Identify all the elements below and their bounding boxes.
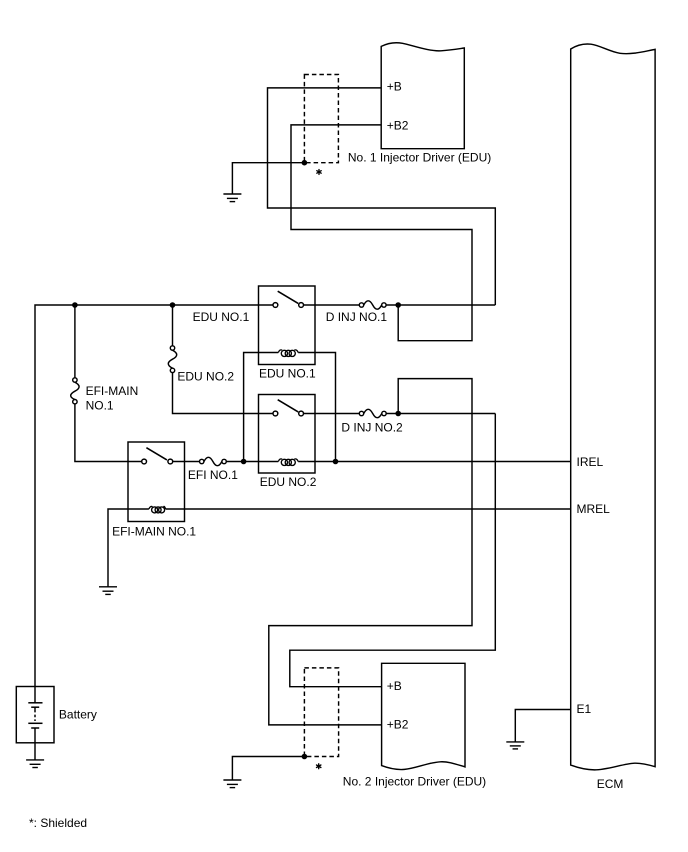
ECM box — [571, 44, 655, 770]
svg-text:EDU NO.2: EDU NO.2 — [260, 475, 317, 489]
relay EDU NO.2 switch blade — [278, 400, 299, 412]
svg-text:ECM: ECM — [597, 777, 624, 791]
wire fuse D INJ NO.2 output — [384, 413, 495, 415]
wire IREL line from EFI NO.1 fuse to ECM — [224, 461, 278, 463]
relay EDU NO.1 box — [259, 286, 316, 365]
wire EFI-MAIN NO.1 fuse branch upper — [74, 305, 76, 380]
ground (bottom shield) — [223, 780, 241, 788]
fuse D INJ NO.1 element — [364, 301, 382, 309]
wire +B2 feed of No.2 EDU — [269, 379, 472, 725]
shield (dashed) around No.1 EDU feed — [304, 75, 338, 163]
wire EDU NO.2 fuse branch lower to relay — [173, 370, 276, 413]
no.1 injector driver (EDU) box — [381, 43, 464, 149]
ground (EFI-MAIN relay coil) — [99, 587, 117, 595]
wire relay EDU NO.2 output to fuse D INJ NO.2 — [301, 413, 361, 415]
wire EFI-MAIN NO.1 fuse branch lower to relay — [75, 402, 144, 462]
ground (battery) — [26, 760, 44, 768]
svg-text:EFI NO.1: EFI NO.1 — [188, 468, 238, 482]
svg-text:D INJ NO.1: D INJ NO.1 — [326, 310, 388, 324]
svg-text:EFI-MAIN NO.1: EFI-MAIN NO.1 — [112, 525, 196, 539]
wire relay EDU NO.1 output to fuse D INJ NO.1 — [301, 304, 361, 306]
wire EDU NO.1 relay coil loop — [244, 353, 279, 462]
svg-text:+B2: +B2 — [387, 718, 409, 732]
svg-text:E1: E1 — [577, 702, 592, 716]
svg-text:EDU NO.1: EDU NO.1 — [259, 367, 316, 381]
wire MREL line from EFI-MAIN relay coil to ECM — [108, 509, 149, 587]
ground (E1) — [506, 742, 524, 749]
svg-text:+B: +B — [387, 679, 402, 693]
svg-text:Battery: Battery — [59, 707, 97, 721]
relay EDU NO.1 coil — [278, 350, 298, 357]
wire top shield drain to ground — [232, 163, 304, 194]
fuse EFI NO.1 element — [204, 457, 222, 465]
ground (top shield) — [223, 194, 241, 202]
wire EDU NO.2 fuse branch upper — [172, 305, 174, 348]
svg-text:NO.1: NO.1 — [86, 398, 114, 412]
wire +B2 feed of No.1 EDU — [291, 125, 472, 341]
wire +B feed of No.1 EDU — [268, 88, 496, 305]
wire +B feed of No.2 EDU — [290, 414, 496, 687]
wire battery negative to ground — [34, 728, 36, 760]
relay EFI-MAIN NO.1 box — [128, 442, 185, 522]
relay EFI-MAIN NO.1 switch blade — [146, 448, 167, 460]
svg-text:EDU NO.2: EDU NO.2 — [177, 370, 234, 384]
shield (dashed) around No.2 EDU feed — [304, 668, 338, 757]
relay EFI-MAIN NO.1 coil — [149, 506, 166, 512]
wire E1 to ground — [515, 710, 570, 742]
svg-text:EDU NO.1: EDU NO.1 — [193, 310, 250, 324]
label shield asterisk (bottom) — [317, 764, 321, 769]
wire bottom shield drain to ground — [232, 757, 304, 781]
no.2 injector driver (EDU) box — [382, 663, 465, 769]
fuse terminal circles — [73, 303, 386, 464]
label shield asterisk (top) — [317, 170, 321, 175]
svg-text:+B2: +B2 — [387, 119, 409, 133]
fuse D INJ NO.2 element — [364, 409, 382, 417]
relay EDU NO.1 switch blade — [278, 291, 299, 303]
switch terminal circles — [142, 303, 304, 464]
svg-text:D INJ NO.2: D INJ NO.2 — [341, 421, 403, 435]
svg-text:No. 1 Injector Driver (EDU): No. 1 Injector Driver (EDU) — [348, 150, 491, 164]
svg-text:IREL: IREL — [577, 455, 604, 469]
svg-text:No. 2 Injector Driver (EDU): No. 2 Injector Driver (EDU) — [343, 774, 486, 788]
battery B box — [16, 687, 54, 743]
svg-text:MREL: MREL — [577, 502, 611, 516]
fuse EFI-MAIN NO.1 element (vertical) — [71, 382, 79, 399]
battery cell plates — [28, 703, 42, 728]
svg-text:EFI-MAIN: EFI-MAIN — [86, 384, 139, 398]
svg-text:+B: +B — [387, 80, 402, 94]
wire relay EFI-MAIN switch output to EFI NO.1 fuse — [170, 461, 201, 463]
relay EDU NO.2 coil — [278, 459, 298, 466]
wire fuse D INJ NO.1 output — [384, 304, 495, 306]
relay EDU NO.2 box — [259, 395, 316, 474]
fuse EDU NO.2 element (vertical) — [168, 350, 176, 368]
wire battery positive bus — [35, 305, 275, 703]
svg-text:*: Shielded: *: Shielded — [29, 816, 87, 830]
